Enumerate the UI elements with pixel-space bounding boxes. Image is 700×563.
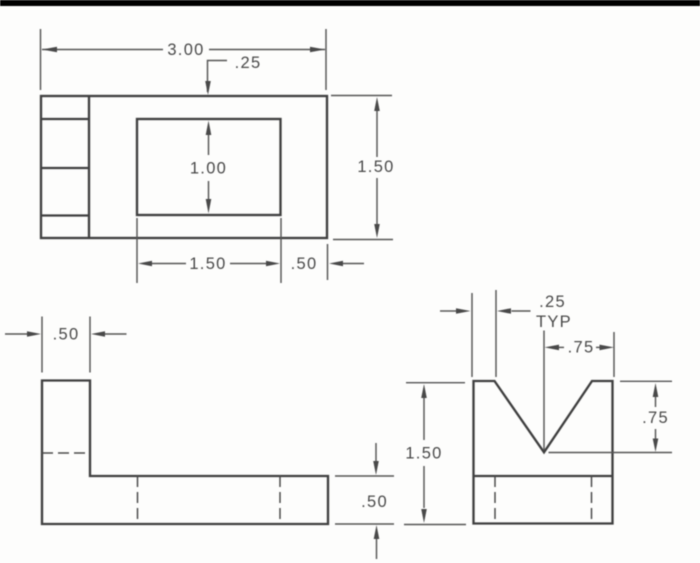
svg-text:.25: .25: [235, 54, 262, 72]
svg-text:1.50: 1.50: [189, 255, 226, 273]
svg-text:1.00: 1.00: [190, 160, 227, 178]
svg-text:1.50: 1.50: [405, 445, 442, 463]
svg-text:.50: .50: [361, 493, 388, 511]
svg-text:.50: .50: [291, 255, 318, 273]
svg-text:3.00: 3.00: [167, 41, 204, 59]
svg-text:.25: .25: [539, 293, 566, 311]
svg-text:.75: .75: [568, 339, 595, 357]
svg-text:.50: .50: [53, 326, 80, 344]
svg-text:TYP: TYP: [536, 313, 572, 331]
svg-text:.75: .75: [642, 409, 669, 427]
svg-text:1.50: 1.50: [357, 158, 394, 176]
